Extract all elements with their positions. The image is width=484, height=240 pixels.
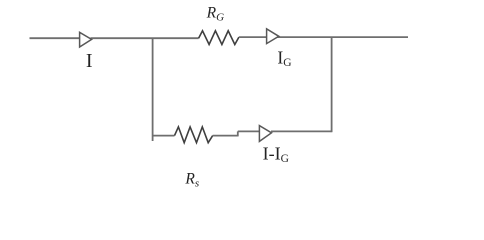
svg-text:I: I [86, 50, 93, 72]
svg-text:IG: IG [277, 48, 291, 70]
wire: top rail from R_G to output (right) [239, 36, 408, 38]
svg-text:I-IG: I-IG [263, 144, 289, 166]
wire: input feed (left) [30, 37, 81, 39]
resistor R_G [199, 31, 239, 45]
svg-text:RG: RG [206, 5, 224, 24]
arrow: current I direction [80, 32, 92, 47]
wire: bottom rail left (to resistor R_s) [153, 135, 175, 137]
wire: left vertical branch (junction down to bottom rail) [152, 38, 154, 142]
arrow: current I_G direction [267, 29, 279, 44]
wire: bottom rail after arrow to right branch [271, 130, 332, 132]
wire: right vertical branch (bottom rail up to top rail) [331, 37, 333, 132]
wire: top rail from arrow I to resistor R_G [91, 37, 199, 39]
wire: bottom rail middle segment [213, 135, 238, 137]
wire: bottom rail to arrow I-I_G [238, 130, 260, 132]
resistor R_s [175, 127, 213, 143]
wire: small vertical step up [237, 131, 239, 136]
svg-text:Rs: Rs [184, 171, 199, 190]
arrow: current I-I_G direction [259, 126, 271, 142]
